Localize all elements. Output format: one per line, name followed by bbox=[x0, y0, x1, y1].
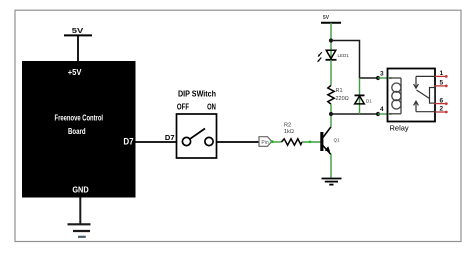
svg-text:R1: R1 bbox=[336, 88, 343, 94]
svg-text:5: 5 bbox=[440, 80, 444, 87]
svg-text:D7: D7 bbox=[165, 133, 175, 142]
svg-text:+5V: +5V bbox=[68, 68, 82, 77]
svg-text:Freenove Control: Freenove Control bbox=[55, 114, 104, 123]
svg-text:5V: 5V bbox=[323, 15, 329, 21]
svg-text:Relay: Relay bbox=[390, 124, 409, 133]
svg-text:DIP SWitch: DIP SWitch bbox=[178, 90, 216, 99]
svg-text:Pin: Pin bbox=[261, 140, 268, 146]
svg-text:2: 2 bbox=[440, 106, 444, 113]
svg-text:6: 6 bbox=[440, 97, 444, 104]
svg-text:OFF: OFF bbox=[177, 103, 189, 112]
svg-text:Board: Board bbox=[68, 127, 86, 136]
svg-text:4: 4 bbox=[380, 106, 384, 113]
svg-text:220Ω: 220Ω bbox=[336, 96, 349, 102]
svg-text:D7: D7 bbox=[123, 137, 133, 147]
svg-text:5V: 5V bbox=[72, 26, 84, 35]
svg-text:1kΩ: 1kΩ bbox=[284, 129, 294, 135]
svg-text:D1: D1 bbox=[366, 99, 372, 104]
svg-text:Q1: Q1 bbox=[334, 138, 341, 143]
svg-text:1: 1 bbox=[440, 70, 444, 77]
svg-text:3: 3 bbox=[380, 71, 384, 78]
svg-text:GND: GND bbox=[72, 185, 89, 194]
svg-text:R2: R2 bbox=[284, 123, 291, 129]
svg-text:ON: ON bbox=[207, 103, 216, 112]
svg-text:LED1: LED1 bbox=[338, 53, 350, 58]
